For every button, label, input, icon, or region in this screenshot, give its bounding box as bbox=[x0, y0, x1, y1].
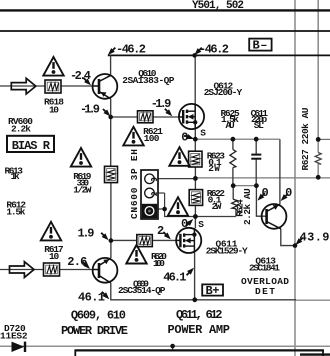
svg-text:46.1: 46.1 bbox=[163, 270, 186, 284]
svg-text:B–: B– bbox=[253, 39, 268, 53]
svg-text:11ES2: 11ES2 bbox=[0, 331, 28, 342]
svg-text:2SC1841: 2SC1841 bbox=[249, 262, 280, 273]
svg-text:1k: 1k bbox=[11, 171, 20, 182]
svg-text:2.2k AU: 2.2k AU bbox=[242, 188, 253, 225]
svg-text:0: 0 bbox=[285, 186, 292, 200]
svg-text:100: 100 bbox=[144, 133, 160, 144]
svg-text:Y501, 502: Y501, 502 bbox=[192, 0, 244, 12]
svg-text:S: S bbox=[198, 219, 204, 230]
svg-text:0: 0 bbox=[262, 186, 269, 200]
svg-text:1.5k: 1.5k bbox=[6, 207, 25, 218]
svg-text:2: 2 bbox=[157, 224, 164, 238]
svg-text:10: 10 bbox=[49, 251, 59, 262]
svg-text:2SJ200-Y: 2SJ200-Y bbox=[204, 87, 243, 98]
svg-text:CN600 3P EH: CN600 3P EH bbox=[129, 149, 140, 219]
svg-text:2SA1383-QP: 2SA1383-QP bbox=[122, 75, 174, 86]
svg-text:Q609, 610: Q609, 610 bbox=[71, 309, 126, 323]
svg-text:S: S bbox=[200, 127, 206, 138]
svg-text:2.6: 2.6 bbox=[67, 255, 87, 269]
svg-text:-46.2: -46.2 bbox=[199, 43, 229, 57]
svg-text:2.2k: 2.2k bbox=[11, 124, 31, 135]
svg-text:2SK1529-Y: 2SK1529-Y bbox=[206, 245, 248, 256]
svg-text:2W: 2W bbox=[208, 163, 220, 174]
svg-text:2W: 2W bbox=[212, 201, 222, 212]
svg-text:POWER DRIVE: POWER DRIVE bbox=[61, 324, 128, 338]
svg-text:-1.9: -1.9 bbox=[151, 97, 172, 111]
svg-text:POWER AMP: POWER AMP bbox=[168, 323, 231, 337]
svg-text:B+: B+ bbox=[206, 284, 220, 298]
svg-text:DET: DET bbox=[255, 286, 275, 297]
svg-text:-46.2: -46.2 bbox=[116, 43, 146, 57]
svg-text:0: 0 bbox=[181, 131, 188, 145]
svg-text:1/2W: 1/2W bbox=[73, 184, 91, 195]
svg-text:-2.4: -2.4 bbox=[70, 69, 91, 83]
svg-text:BIAS R: BIAS R bbox=[12, 139, 51, 153]
svg-text:100: 100 bbox=[153, 258, 165, 269]
svg-text:46.1: 46.1 bbox=[78, 290, 105, 304]
svg-text:SL: SL bbox=[254, 120, 264, 131]
svg-text:2SC3514-QP: 2SC3514-QP bbox=[118, 285, 166, 296]
svg-text:43.9: 43.9 bbox=[300, 230, 330, 244]
svg-text:AU: AU bbox=[226, 120, 235, 131]
svg-text:R627 220k AU: R627 220k AU bbox=[300, 107, 311, 170]
svg-text:-1.9: -1.9 bbox=[80, 103, 100, 117]
svg-text:0: 0 bbox=[181, 217, 188, 231]
svg-text:Q611, 612: Q611, 612 bbox=[176, 308, 223, 322]
svg-text:10: 10 bbox=[49, 105, 59, 116]
svg-text:1.9: 1.9 bbox=[78, 226, 95, 240]
